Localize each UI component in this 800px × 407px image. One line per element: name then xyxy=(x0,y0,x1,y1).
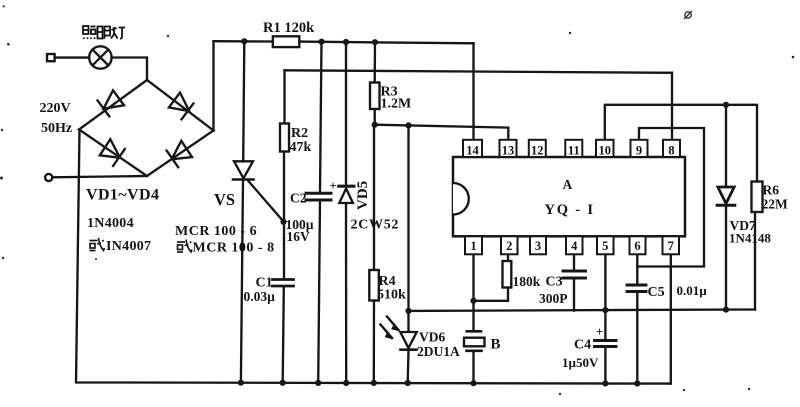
wire lamp to bridge top xyxy=(112,58,147,81)
node B on bottom rail xyxy=(470,380,476,386)
node C4 on bottom rail xyxy=(602,380,608,386)
resistor R6 xyxy=(752,182,763,213)
svg-text:3: 3 xyxy=(535,239,541,253)
svg-text:R2: R2 xyxy=(291,126,308,141)
wire pin10 net to VD7/R6 tops xyxy=(605,105,757,182)
pin 9 box xyxy=(631,140,648,157)
resistor R3 xyxy=(370,83,380,110)
label 照明灯 (lamp) xyxy=(83,26,125,39)
svg-text:2DU1A: 2DU1A xyxy=(417,344,460,359)
node gate/R2/C1 xyxy=(280,219,286,225)
svg-text:8: 8 xyxy=(668,144,674,158)
microphone B xyxy=(464,331,485,383)
svg-text:C5: C5 xyxy=(648,285,665,300)
wire VD5 bottom to rail xyxy=(345,203,348,383)
node R3 on rail xyxy=(372,39,378,45)
wire pin2 to 180k xyxy=(507,255,509,262)
svg-text:10: 10 xyxy=(599,144,612,158)
diode VD1 (top-left arm) xyxy=(98,90,125,116)
svg-text:7: 7 xyxy=(668,239,674,253)
wire R2 top horizontal to pin8 riser xyxy=(285,70,673,73)
svg-text:14: 14 xyxy=(466,144,479,158)
svg-text:2: 2 xyxy=(506,239,512,253)
wire C4 to bottom rail xyxy=(604,347,606,383)
pin 10 box xyxy=(596,140,614,157)
node C5 on bottom rail xyxy=(634,380,640,386)
svg-text:4: 4 xyxy=(571,239,578,253)
svg-text:1.2M: 1.2M xyxy=(381,97,412,112)
wire C2 top xyxy=(320,42,322,193)
node R4 on bottom rail xyxy=(371,380,377,386)
wire R6 bottom to net N1 xyxy=(754,212,756,310)
wire R2 top xyxy=(283,70,285,123)
wire VD6 riser xyxy=(407,125,409,332)
thyristor VS xyxy=(233,161,254,179)
wire pin8 riser xyxy=(671,73,673,143)
svg-text:+: + xyxy=(330,179,337,193)
svg-text:180k: 180k xyxy=(513,274,541,289)
svg-text:+: + xyxy=(596,325,603,339)
capacitor C5 xyxy=(627,285,646,292)
svg-text:6: 6 xyxy=(634,239,640,253)
node VD7 top xyxy=(723,102,729,108)
wire pin1 riser xyxy=(472,255,474,330)
pin 11 box xyxy=(565,140,582,157)
svg-text:MCR 100 - 6: MCR 100 - 6 xyxy=(175,224,257,239)
resistor 180k xyxy=(503,261,512,288)
wire VD7 cathode to net N1 xyxy=(725,205,727,309)
pin numbers xyxy=(466,144,674,254)
svg-text:220V: 220V xyxy=(40,101,71,116)
node C2 on bottom rail xyxy=(315,380,321,386)
diode VD7 1N4148 xyxy=(717,187,735,205)
svg-text:50Hz: 50Hz xyxy=(41,121,72,136)
bridge frame (diamond VD1~VD4) xyxy=(79,80,214,176)
pin 7 box xyxy=(663,236,680,254)
pin 1 box xyxy=(465,236,482,254)
capacitor C1 xyxy=(273,280,294,287)
diode VD3 (bottom-left arm) xyxy=(100,139,125,166)
node C1 on bottom rail xyxy=(280,380,286,386)
svg-text:0.01µ: 0.01µ xyxy=(677,283,708,298)
label 或 (of MCR 100-8) xyxy=(177,240,192,253)
pin 4 box xyxy=(566,236,583,254)
wire pin4 to C3 xyxy=(573,255,575,271)
svg-text:1µ50V: 1µ50V xyxy=(562,355,599,370)
wire VS cathode to bottom rail xyxy=(241,180,243,383)
node VD5 on rail xyxy=(343,39,349,45)
svg-text:1N4004: 1N4004 xyxy=(87,216,134,231)
IC pin boxes xyxy=(463,140,680,255)
svg-text:9: 9 xyxy=(636,144,642,158)
wire VD6 bottom to rail xyxy=(407,350,410,383)
pin 5 box xyxy=(597,236,614,254)
node pin1/180k xyxy=(470,298,476,304)
node VD5 on bottom rail xyxy=(343,380,349,386)
wire VD5 top xyxy=(345,42,347,186)
bottom rail xyxy=(76,130,671,384)
svg-text:B: B xyxy=(491,337,501,353)
svg-text:1N4148: 1N4148 xyxy=(729,231,771,246)
pin 8 box xyxy=(663,140,680,157)
svg-text:VD6: VD6 xyxy=(419,330,445,345)
resistor R2 xyxy=(280,124,289,152)
IC U1 body xyxy=(453,157,685,236)
svg-text:1: 1 xyxy=(470,239,476,253)
wire T1 to lamp xyxy=(55,56,90,58)
wire bridge right vertex up to top rail xyxy=(212,41,214,130)
node VD6 top xyxy=(405,308,411,314)
wire pin7 to bottom rail xyxy=(670,255,672,384)
wire pin9 to pin6 loop xyxy=(637,128,704,267)
svg-text:C4: C4 xyxy=(574,338,591,353)
pin 14 box xyxy=(463,140,482,157)
wire R3 top xyxy=(374,42,377,82)
svg-text:11: 11 xyxy=(568,144,580,158)
svg-text:2CW52: 2CW52 xyxy=(351,218,400,233)
svg-text:0.03µ: 0.03µ xyxy=(244,289,276,304)
wire top rail left section xyxy=(214,40,273,43)
svg-text:R6: R6 xyxy=(763,183,780,198)
svg-text:A: A xyxy=(563,177,573,192)
pin 3 box xyxy=(530,236,546,254)
diode VD4 (bottom-right arm) xyxy=(167,141,192,167)
node R3/R4 xyxy=(372,122,378,128)
wire VS gate xyxy=(248,180,284,222)
terminal T1 (upper AC input) xyxy=(47,54,55,61)
svg-text:300P: 300P xyxy=(539,291,568,306)
node C2 on rail xyxy=(318,39,324,45)
svg-text:C3: C3 xyxy=(546,275,563,290)
svg-text:16V: 16V xyxy=(287,229,311,244)
wire net N1 horizontal (VD6 node to R6 bottom) xyxy=(409,310,756,311)
terminal T2 (lower AC input) xyxy=(45,174,52,181)
svg-text:IN4007: IN4007 xyxy=(106,239,151,254)
lamp 照明灯 xyxy=(89,46,111,68)
wire R2 bottom to C1 xyxy=(283,152,285,279)
svg-text:22M: 22M xyxy=(762,197,789,212)
wire R3 bottom to node xyxy=(374,109,376,125)
wire 180k bottom to pin1 node xyxy=(474,288,509,301)
svg-text:13: 13 xyxy=(502,144,515,158)
svg-text:12: 12 xyxy=(531,144,544,158)
noise squiggle top-right xyxy=(684,11,692,19)
resistor R1 xyxy=(273,36,300,47)
pin 2 box xyxy=(501,236,518,254)
node VD6 branch xyxy=(405,122,411,128)
wire pin14 riser xyxy=(472,43,474,142)
node VS on bottom rail xyxy=(238,380,244,386)
zener VD5 2CW52 xyxy=(339,186,354,203)
svg-text:MCR 100 - 8: MCR 100 - 8 xyxy=(193,241,275,256)
svg-text:VS: VS xyxy=(214,190,235,209)
svg-text:C2: C2 xyxy=(290,191,307,206)
svg-text:VD5: VD5 xyxy=(355,181,371,210)
wire T2 to bridge bottom vertex xyxy=(52,176,147,177)
wire VD7 anode xyxy=(725,105,727,187)
wire VS anode xyxy=(243,41,244,161)
IC U1 notch xyxy=(453,183,469,215)
svg-text:5: 5 xyxy=(602,239,608,253)
svg-text:R1 120k: R1 120k xyxy=(263,20,315,36)
svg-text:47k: 47k xyxy=(290,140,312,155)
svg-text:510k: 510k xyxy=(377,288,406,303)
wire node to pin13 xyxy=(375,125,509,143)
capacitor C3 xyxy=(563,271,586,278)
node pin5 on net N1 xyxy=(602,307,608,313)
wire C5 to bottom rail xyxy=(636,292,638,384)
node VS anode on rail xyxy=(241,38,247,44)
pin 6 box xyxy=(630,236,646,254)
node VD7 on net N1 xyxy=(723,307,729,313)
capacitor C4 (electrolytic) xyxy=(595,341,617,347)
diode VD2 (top-right arm) xyxy=(169,93,194,120)
pin 12 box xyxy=(529,140,546,157)
wire C2 to bottom rail xyxy=(318,201,320,383)
resistor R4 xyxy=(369,125,379,383)
capacitor C2 (electrolytic) xyxy=(306,193,331,200)
node VD6 on bottom rail xyxy=(405,380,411,386)
wire pin6 to C5 xyxy=(636,255,638,285)
photodiode VD6 2DU1A xyxy=(381,317,417,350)
wire C1 to bottom rail xyxy=(283,287,284,383)
svg-text:YQ - I: YQ - I xyxy=(545,202,595,218)
wire C3 bottom to net N1 xyxy=(573,279,575,311)
svg-text:VD1~VD4: VD1~VD4 xyxy=(86,187,159,204)
pin 13 box xyxy=(500,140,517,157)
label 或 (of IN4007) xyxy=(90,238,105,251)
wire top rail right section xyxy=(299,42,473,44)
wire pin5 riser xyxy=(604,255,606,340)
